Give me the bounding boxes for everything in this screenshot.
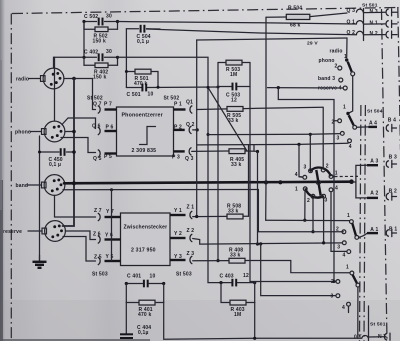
- svg-text:1: 1: [347, 213, 350, 219]
- svg-text:Q 5: Q 5: [93, 156, 102, 162]
- wire radio to Q7 contact: [74, 79, 96, 110]
- DIN connector radio: [16, 68, 64, 89]
- svg-text:Q 3: Q 3: [185, 156, 194, 162]
- svg-text:Z 2: Z 2: [187, 228, 195, 234]
- pin Y1 right: [170, 205, 194, 219]
- svg-text:Q 2: Q 2: [347, 30, 356, 36]
- pin P6: [92, 124, 117, 135]
- wire R504 left down to thick bus: [265, 17, 267, 182]
- contact N1 mate: [386, 21, 389, 28]
- svg-text:Y 5: Y 5: [106, 254, 114, 260]
- resistor R501: [126, 69, 158, 87]
- svg-text:3: 3: [337, 244, 340, 250]
- connector St501 bottom: [354, 306, 390, 341]
- capacitor C403: [219, 273, 256, 286]
- svg-text:150 k: 150 k: [93, 75, 106, 81]
- border dash-dot vertical V1: [382, 9, 388, 341]
- svg-text:Y 1: Y 1: [174, 208, 182, 214]
- contact N3 mate: [386, 9, 389, 16]
- svg-text:4: 4: [335, 186, 338, 192]
- svg-text:B 3: B 3: [389, 155, 397, 161]
- connector St504: [367, 109, 397, 237]
- wire phono top pin up: [54, 57, 56, 121]
- node radio/bus junction: [72, 77, 76, 81]
- svg-text:B 2: B 2: [389, 188, 397, 194]
- svg-text:1: 1: [295, 187, 298, 193]
- svg-text:10: 10: [148, 92, 154, 98]
- DIN connector phono: [15, 121, 65, 142]
- wire rotary lower-left pin down to row220: [304, 191, 306, 221]
- svg-text:phono: phono: [319, 58, 335, 64]
- svg-text:R 504: R 504: [288, 6, 302, 12]
- svg-text:3: 3: [325, 198, 328, 204]
- wire thick bus elbow to A2 link: [354, 181, 356, 183]
- node: junction dots C502/R502: [82, 20, 85, 23]
- svg-text:29 V: 29 V: [307, 41, 318, 47]
- capacitor C450: [38, 148, 76, 168]
- border frame left (dash-dot): [10, 14, 12, 341]
- wire band bottom pin to Y7: [55, 196, 96, 218]
- svg-text:B 4: B 4: [388, 117, 396, 123]
- pin P3 right: [172, 148, 194, 163]
- wire phono low pin to Q5: [61, 138, 96, 153]
- wire C504 left lead down to C501 row: [125, 29, 127, 88]
- svg-text:30: 30: [106, 49, 112, 55]
- resistor R402 (parallel with C402): [84, 57, 118, 80]
- capacitor C401: [125, 274, 166, 288]
- pin Y5: [94, 254, 121, 265]
- svg-text:St 504: St 504: [367, 109, 383, 115]
- wire N3 out: [364, 11, 386, 13]
- wire row220 from bus vertical to A1 contact1: [266, 219, 350, 221]
- wire rotary mech link dashed: [333, 176, 335, 178]
- svg-text:B 1: B 1: [389, 227, 397, 233]
- svg-text:2: 2: [331, 279, 334, 285]
- svg-text:St 503: St 503: [176, 272, 192, 278]
- svg-text:3: 3: [304, 165, 307, 171]
- svg-text:radio: radio: [16, 77, 29, 83]
- svg-text:band: band: [16, 183, 29, 189]
- pin P5: [93, 150, 117, 162]
- scan bottom edge: [0, 339, 150, 341]
- svg-text:0,1 µ: 0,1 µ: [49, 162, 61, 168]
- border frame top (dash-dot): [12, 8, 399, 14]
- svg-text:470 k: 470 k: [138, 312, 151, 318]
- svg-text:Y 2: Y 2: [174, 231, 182, 237]
- pin P1 right: [174, 100, 194, 114]
- node bus junctions: [72, 181, 76, 185]
- wire thick signal bus from band to rotary switch: [64, 182, 352, 184]
- scan left edge: [0, 0, 5, 341]
- wire bottom row to St501 bottom: [164, 303, 362, 340]
- wire reserve pin to Y6: [65, 231, 95, 240]
- rotary switch wafer Q (selector symbol): [295, 164, 338, 205]
- svg-text:N 1: N 1: [370, 20, 378, 26]
- svg-text:4: 4: [349, 144, 352, 150]
- switch S3 (A1): [336, 213, 367, 259]
- svg-text:2 309 835: 2 309 835: [132, 148, 157, 154]
- svg-text:Q 7: Q 7: [93, 102, 102, 108]
- wire stub row144 down to R405 row: [253, 145, 255, 151]
- svg-text:St 501: St 501: [370, 322, 386, 328]
- svg-text:1M: 1M: [234, 312, 241, 318]
- svg-text:150 k: 150 k: [93, 39, 106, 45]
- wire A3-A2 link: [356, 165, 367, 198]
- svg-text:A 3: A 3: [370, 158, 378, 164]
- ground symbol: [33, 255, 47, 268]
- DIN connector reserve: [3, 221, 65, 242]
- wire node A vertical (C502 to C402): [83, 22, 85, 58]
- svg-text:Z 3: Z 3: [187, 251, 195, 257]
- wire reserve contact row to vertical: [268, 87, 344, 89]
- wire rotary pin4 left stub: [299, 176, 303, 179]
- svg-text:Phonoentzerrer: Phonoentzerrer: [122, 113, 163, 119]
- svg-text:4: 4: [342, 305, 345, 311]
- svg-text:33 k: 33 k: [231, 162, 241, 168]
- capacitor C402: [84, 49, 118, 61]
- capacitor C503 (parallel with R503): [218, 63, 250, 104]
- wire reserve low pin to Y5: [63, 237, 96, 262]
- contact N2 mate: [386, 31, 389, 38]
- svg-text:2 317 950: 2 317 950: [131, 248, 156, 254]
- pin Y6: [93, 232, 121, 244]
- svg-text:2: 2: [326, 164, 329, 170]
- switch S1 source selector (radio/phono/band/reserve): [318, 49, 355, 92]
- svg-text:phono: phono: [15, 130, 31, 136]
- svg-text:2: 2: [332, 120, 335, 126]
- svg-text:3: 3: [337, 136, 340, 142]
- svg-text:2: 2: [335, 64, 338, 70]
- wire phono shield down (ground chain): [39, 136, 41, 262]
- resistor R505: [197, 107, 323, 125]
- resistor R504: [266, 6, 347, 29]
- svg-text:band 3: band 3: [318, 76, 335, 82]
- wire rotary bottom pin2 down to row231.8: [312, 198, 314, 232]
- svg-text:1: 1: [335, 171, 338, 177]
- wire 29V vertical down through P2 row to R508 row: [196, 40, 198, 216]
- svg-text:30: 30: [106, 14, 112, 20]
- svg-text:2: 2: [307, 198, 310, 204]
- svg-text:P 7: P 7: [104, 102, 112, 108]
- svg-text:33 k: 33 k: [230, 253, 240, 259]
- svg-text:1M: 1M: [230, 72, 237, 78]
- svg-text:P 1: P 1: [174, 102, 182, 108]
- wire N1 out: [364, 23, 386, 25]
- switch S4 (bottom): [331, 265, 360, 312]
- wire bus dot down to row220: [265, 182, 267, 220]
- border dash-dot St504 boundary a: [360, 105, 361, 341]
- block Zwischenstecker U401: [121, 213, 171, 266]
- wire R503 right vertical down to low c2 row: [250, 87, 336, 282]
- resistor R401 (parallel with C401): [126, 284, 163, 319]
- svg-text:P 6: P 6: [106, 125, 114, 131]
- svg-text:reserve: reserve: [3, 229, 22, 235]
- wire low c4 stub: [348, 306, 350, 312]
- svg-text:1: 1: [346, 265, 349, 271]
- wire P2 row stub: [193, 129, 198, 131]
- svg-text:Z 1: Z 1: [187, 205, 195, 211]
- svg-text:Q 1: Q 1: [347, 19, 356, 25]
- wire R408 to low switch contact1: [291, 261, 350, 273]
- wire row144 across to contact4 of S2: [197, 143, 349, 145]
- wire row134 across to contact3 of S2: [208, 134, 340, 135]
- wire radio right pin to bus: [64, 78, 74, 80]
- wire band lower pin long row y189.5: [63, 190, 343, 232]
- svg-text:radio: radio: [330, 49, 343, 55]
- svg-text:1: 1: [343, 105, 346, 111]
- svg-text:0,1µ: 0,1µ: [138, 330, 149, 336]
- wire R508 row corner up to y144 row: [248, 145, 250, 217]
- wire vertical bus x74: [63, 79, 75, 227]
- svg-text:4: 4: [295, 172, 298, 178]
- svg-text:C 501: C 501: [127, 92, 141, 98]
- wire N2 out: [364, 34, 386, 36]
- svg-text:Y 7: Y 7: [106, 209, 114, 215]
- capacitor C501: [126, 84, 218, 98]
- wire rotary right-low pin down to A1 contact4 row: [331, 192, 347, 252]
- pin Y2 right: [170, 228, 194, 242]
- pin Y7: [94, 208, 121, 221]
- wire selector pivot down to switch S2: [349, 76, 353, 113]
- svg-text:0,1 µ: 0,1 µ: [137, 39, 149, 45]
- wire R405 node down to long row: [257, 152, 259, 245]
- resistor R508: [193, 204, 249, 219]
- capacitor C404: [120, 303, 151, 339]
- svg-text:Q1: Q1: [186, 100, 193, 106]
- svg-text:A 2: A 2: [370, 191, 378, 197]
- svg-text:N 2: N 2: [370, 31, 378, 37]
- svg-text:12: 12: [231, 98, 237, 104]
- DIN connector band: [16, 175, 65, 196]
- wire Y2 long row to A1 contact3: [193, 239, 343, 245]
- svg-text:P 5: P 5: [104, 154, 112, 160]
- connector St501 top: [347, 3, 378, 41]
- wire C504 row to St501 N2: [147, 29, 357, 35]
- wire y144 node down to rotary pin4: [299, 144, 302, 177]
- pin Y3 right: [170, 251, 194, 264]
- wire rotary pin3 up to row134: [309, 134, 311, 168]
- wire 29V down to radio contact: [346, 38, 348, 58]
- svg-text:P 3: P 3: [172, 155, 180, 161]
- wire row down to low c3: [261, 244, 336, 296]
- wire phono right pin to bus and Q6: [62, 118, 96, 129]
- wire phono mid pin to bus: [65, 131, 74, 133]
- block Phonoentzerrer U501: [117, 107, 174, 156]
- svg-text:C 502: C 502: [84, 14, 98, 20]
- svg-text:4: 4: [343, 253, 346, 259]
- svg-text:C 402: C 402: [84, 50, 98, 56]
- border dash-dot vertical V2 right edge: [398, 7, 400, 150]
- node: junction dots C402/R402: [82, 56, 85, 59]
- border dash-dot St504 boundary b: [364, 105, 365, 341]
- svg-text:A 4: A 4: [369, 120, 377, 126]
- wire C402 row to corner x208 down: [118, 57, 222, 282]
- switch S2 (A4): [332, 105, 369, 150]
- wire rotary pin2 up to R505 row: [322, 107, 324, 168]
- svg-text:10: 10: [150, 274, 156, 280]
- wire S4 pivot down to bottom row: [357, 287, 359, 338]
- wire radio top pin up and right to C402 node: [54, 57, 85, 68]
- resistor R408: [193, 248, 291, 264]
- svg-text:St 503: St 503: [92, 272, 108, 278]
- svg-text:0 T: 0 T: [354, 334, 362, 340]
- wire diagonal to R405 row: [208, 87, 247, 151]
- pin P2 right: [174, 122, 195, 134]
- svg-text:12: 12: [243, 273, 249, 279]
- resistor R502 (parallel with C502): [84, 22, 118, 45]
- wire R503 left vertical down: [217, 87, 219, 261]
- svg-text:Q 3: Q 3: [347, 8, 356, 14]
- svg-text:C 401: C 401: [127, 274, 141, 280]
- svg-text:3: 3: [331, 294, 334, 300]
- svg-text:St 501: St 501: [362, 3, 378, 9]
- wire 29V rail: [197, 38, 347, 40]
- svg-text:Zwischenstecker: Zwischenstecker: [124, 225, 168, 231]
- svg-text:68 k: 68 k: [290, 23, 300, 29]
- pin P7: [93, 102, 117, 114]
- capacitor C504: [126, 25, 160, 45]
- wire rotary bottom pin3 down to Y2 row: [323, 198, 325, 243]
- capacitor C502: [84, 14, 118, 26]
- wire branch x111.5 down to Y5 row: [111, 190, 113, 261]
- resistor R503: [218, 60, 250, 78]
- svg-text:33 k: 33 k: [228, 118, 238, 124]
- resistor R403 (parallel with C403): [221, 283, 255, 318]
- svg-text:33 k: 33 k: [228, 209, 238, 215]
- wire vertical to row99 and A4 contact2: [278, 88, 334, 282]
- svg-text:2: 2: [336, 227, 339, 233]
- wire long row C502 junction to St501 N1: [118, 22, 357, 25]
- resistor R405: [192, 149, 259, 168]
- svg-text:C 403: C 403: [220, 274, 234, 280]
